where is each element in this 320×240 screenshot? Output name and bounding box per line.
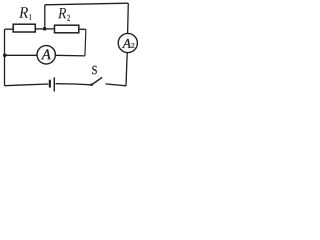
switch S blade: [92, 77, 103, 85]
battery cell: tall thin positive plate: [54, 77, 55, 91]
wire R2 right lead: [79, 28, 86, 30]
resistor R2: [55, 25, 79, 33]
wire switch to bottom right corner: [106, 84, 127, 86]
label R2 subscript 2: [67, 15, 69, 21]
label R1 subscript 1: [30, 14, 32, 19]
wire right vertical below A2: [126, 53, 127, 86]
wire descender R2 corner down to A branch: [85, 29, 86, 56]
wire mid vertical (top rail to node M): [44, 5, 46, 29]
label S (switch): [92, 66, 97, 75]
ammeter A1 letter: [41, 49, 51, 59]
wire top horizontal: [45, 3, 129, 5]
battery cell: short thick negative plate: [49, 80, 51, 88]
wire ammeter A to descender corner: [55, 54, 85, 57]
wire bottom left (to battery): [5, 84, 49, 86]
ammeter A1 circle: [37, 46, 55, 64]
switch S pivot dot: [90, 83, 93, 86]
label R1 letter R: [19, 7, 28, 18]
wire node M to R2: [45, 28, 55, 30]
node M junction dot (between R1 and R2): [43, 27, 47, 31]
resistor R1: [13, 24, 35, 32]
wire left lead to R1: [5, 28, 14, 30]
label R2 letter R: [58, 8, 66, 18]
wire left vertical rail: [4, 29, 6, 85]
ammeter A2 subscript 2: [131, 43, 134, 47]
wire R1 to node M: [35, 28, 44, 30]
ammeter A2 circle: [118, 33, 137, 52]
ammeter A2 letter: [122, 39, 131, 48]
node L junction dot (left rail / ammeter branch): [3, 54, 7, 58]
wire battery to switch: [56, 84, 91, 85]
wire right vertical above A2: [127, 3, 130, 33]
wire left node to ammeter A: [5, 54, 37, 56]
